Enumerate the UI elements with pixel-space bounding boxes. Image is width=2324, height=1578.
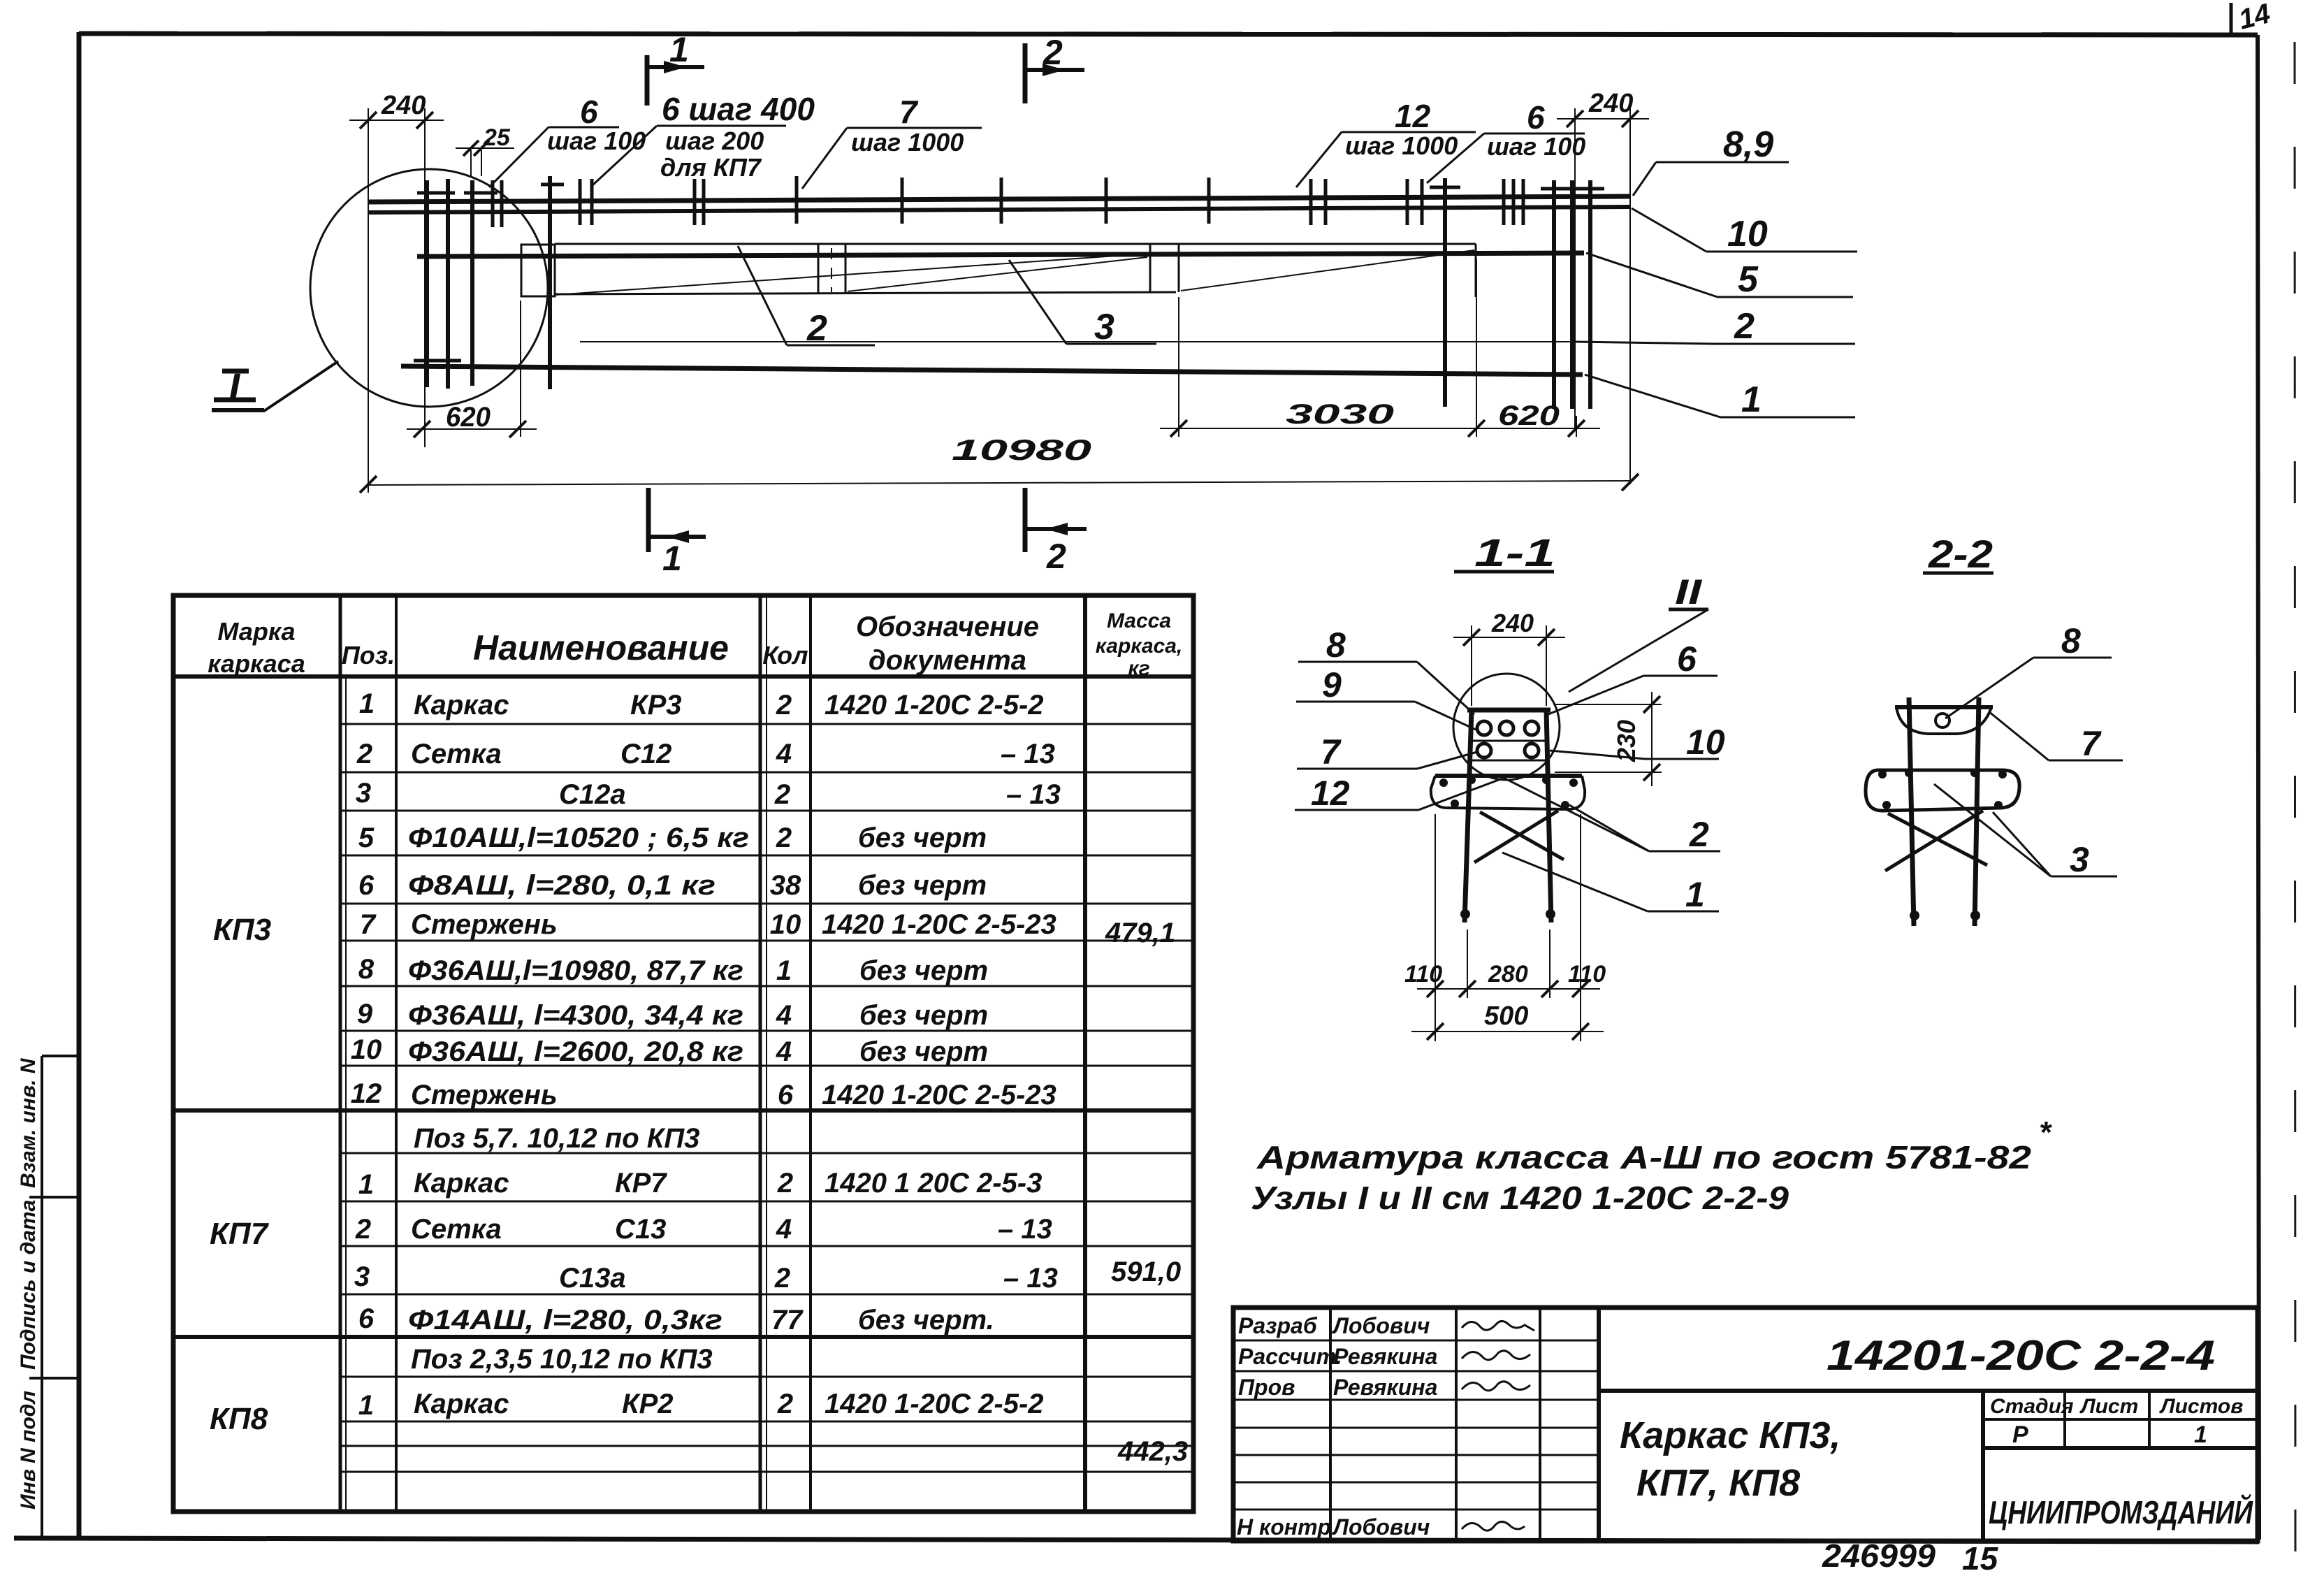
svg-text:12: 12 (1311, 774, 1350, 813)
svg-text:1: 1 (1685, 875, 1705, 914)
svg-text:9: 9 (357, 999, 373, 1029)
callout 2 mid-left (738, 246, 875, 345)
callout 8 (sec 2-2) (1945, 658, 2112, 718)
beam joint rib 2 (1150, 245, 1179, 292)
svg-text:Ф14АШ, l=280, 0,3кг: Ф14АШ, l=280, 0,3кг (408, 1305, 722, 1335)
leader and label I (212, 361, 338, 411)
beam outline top edge (555, 243, 1476, 245)
svg-text:6: 6 (1527, 99, 1545, 136)
dim 240 of section 1-1 (1453, 625, 1565, 706)
svg-text:Разраб: Разраб (1238, 1313, 1318, 1338)
svg-text:Взам. инв. N: Взам. инв. N (17, 1057, 40, 1188)
svg-text:1420 1-20С 2-5-23: 1420 1-20С 2-5-23 (822, 1080, 1056, 1110)
svg-text:8: 8 (1326, 625, 1346, 665)
svg-text:Ф8АШ, l=280, 0,1 кг: Ф8АШ, l=280, 0,1 кг (408, 870, 716, 901)
title block signature rows (1237, 1313, 1437, 1540)
svg-text:– 13: – 13 (998, 1214, 1052, 1245)
svg-text:шаг 1000: шаг 1000 (851, 128, 964, 157)
svg-text:240: 240 (1491, 609, 1534, 637)
beam outline right edge (1475, 244, 1477, 297)
dimension 3030 (1160, 259, 1495, 437)
svg-text:шаг 100: шаг 100 (1487, 132, 1585, 161)
svg-text:КП3: КП3 (213, 913, 271, 947)
svg-text:240: 240 (1588, 89, 1633, 118)
svg-text:7: 7 (2081, 724, 2102, 763)
svg-text:5: 5 (358, 823, 375, 853)
svg-text:Ревякина: Ревякина (1333, 1375, 1437, 1400)
label 6 шаг 400 шаг 200 для КП7 (593, 126, 786, 185)
callout 1 right (1585, 375, 1855, 417)
svg-text:280: 280 (1488, 961, 1528, 987)
callout 12 (sec 1-1) (1295, 779, 1502, 810)
svg-text:Ф36АШ, l=2600, 20,8 кг: Ф36АШ, l=2600, 20,8 кг (408, 1036, 743, 1067)
svg-text:Лист: Лист (2079, 1395, 2138, 1418)
svg-text:8,9: 8,9 (1723, 124, 1773, 165)
title block grid (1233, 1308, 2258, 1541)
stirrup pairs near right (1311, 179, 1523, 225)
svg-text:1420 1-20С 2-5-2: 1420 1-20С 2-5-2 (825, 1389, 1044, 1419)
section 2-2 top flange (1895, 707, 1993, 734)
vertical dim 230 (sec 1-1) (1555, 692, 1662, 786)
svg-text:10: 10 (351, 1034, 382, 1065)
svg-text:Каркас: Каркас (414, 690, 509, 721)
svg-text:Обозначение: Обозначение (856, 611, 1039, 642)
svg-text:Листов: Листов (2159, 1395, 2243, 1418)
dimension 10980 (360, 474, 1639, 493)
svg-text:КР3: КР3 (630, 690, 682, 721)
svg-text:246999: 246999 (1822, 1537, 1936, 1574)
label 7 шаг 1000 (802, 128, 982, 189)
svg-text:14201-20С 2-2-4: 14201-20С 2-2-4 (1826, 1332, 2215, 1379)
svg-text:Каркас: Каркас (414, 1168, 509, 1199)
svg-text:6: 6 (358, 1303, 375, 1334)
section 1-1 column legs (1465, 710, 1551, 922)
svg-text:110: 110 (1404, 961, 1442, 987)
svg-text:10: 10 (1727, 214, 1768, 254)
callout 3 mid (1009, 260, 1156, 344)
left end vertical bars cluster (427, 176, 550, 389)
mesh line bar 2 thin (580, 341, 1574, 342)
section 1-1 leg end dots (1460, 909, 1555, 919)
svg-text:2: 2 (774, 779, 790, 810)
svg-text:1-1: 1-1 (1474, 530, 1555, 574)
svg-text:12: 12 (351, 1078, 382, 1109)
svg-text:Наименование: Наименование (473, 628, 729, 667)
svg-text:– 13: – 13 (1001, 739, 1055, 769)
node II detail circle (1453, 674, 1560, 780)
right end vertical bars cluster (1445, 178, 1590, 409)
svg-text:2: 2 (777, 1168, 793, 1199)
short stirrup pairs near left (493, 179, 704, 227)
section mark 2 bottom (1025, 488, 1087, 552)
label 12 шаг 1000 (1296, 132, 1476, 187)
svg-text:3030: 3030 (1286, 399, 1394, 430)
svg-text:каркаса,: каркаса, (1096, 635, 1183, 658)
svg-text:7: 7 (1321, 732, 1342, 772)
callout 3 (sec 2-2) (1934, 784, 2117, 876)
svg-text:Арматура класса А-Ш п: Арматура класса А-Ш по гост 5781-82 (1256, 1139, 2032, 1175)
table rows: position numbers (351, 688, 382, 1421)
svg-text:7: 7 (360, 909, 377, 940)
svg-text:1: 1 (776, 955, 792, 986)
svg-text:Стержень: Стержень (411, 909, 558, 940)
svg-text:3: 3 (1094, 307, 1114, 347)
svg-text:7: 7 (899, 94, 919, 130)
svg-text:1: 1 (669, 30, 689, 69)
svg-text:Ф36АШ, l=4300, 34,4 кг: Ф36АШ, l=4300, 34,4 кг (408, 1000, 743, 1031)
section 1-1 top flange with bars (1467, 710, 1550, 760)
svg-text:3: 3 (354, 1261, 370, 1292)
svg-text:1: 1 (359, 688, 375, 719)
svg-text:2: 2 (1046, 537, 1066, 576)
svg-text:Стержень: Стержень (411, 1080, 558, 1110)
callout 1 (sec 1-1) (1502, 853, 1719, 911)
left cluster top hooks (417, 184, 564, 193)
svg-text:6 шаг 400: 6 шаг 400 (662, 91, 815, 127)
section 2-2 leg end dots (1910, 911, 1980, 920)
section 1-1 cross bracing (1474, 811, 1564, 862)
svg-text:4: 4 (776, 1214, 792, 1245)
dimension 620 left (407, 301, 537, 437)
svg-text:1: 1 (358, 1390, 374, 1421)
top chord bar 8 (upper line) (368, 196, 1629, 202)
svg-text:Поз 2,3,5 10,12 по КП3: Поз 2,3,5 10,12 по КП3 (411, 1344, 713, 1375)
section mark 1 top (647, 55, 704, 106)
callout 9 (sec 1-1) (1296, 702, 1476, 730)
svg-text:6: 6 (1677, 639, 1697, 679)
svg-text:Ревякина: Ревякина (1333, 1344, 1437, 1369)
beam outline: left support pad (521, 245, 555, 296)
svg-text:ЦНИИПРОМЗДАНИЙ: ЦНИИПРОМЗДАНИЙ (1989, 1494, 2253, 1530)
svg-text:230: 230 (1612, 720, 1641, 762)
svg-text:2: 2 (777, 1389, 793, 1419)
svg-text:шаг 200: шаг 200 (665, 126, 764, 155)
svg-text:2: 2 (1689, 815, 1709, 854)
left sidebar boxes (29, 1056, 79, 1540)
right cluster hooks (1430, 187, 1604, 189)
svg-text:479,1: 479,1 (1105, 918, 1175, 948)
svg-text:77: 77 (771, 1305, 804, 1335)
svg-text:1420 1 20С 2-5-3: 1420 1 20С 2-5-3 (825, 1168, 1042, 1199)
svg-text:– 13: – 13 (1006, 779, 1061, 810)
svg-text:1: 1 (1741, 379, 1762, 420)
svg-text:без черт.: без черт. (858, 1305, 994, 1335)
table grid (173, 595, 1193, 1512)
svg-text:1: 1 (662, 539, 682, 578)
section 2-2 bottom flange (1866, 770, 2019, 811)
section mark 1 bottom (648, 488, 706, 552)
mesh taper diagonal mid (848, 257, 1147, 291)
svg-text:Лобович: Лобович (1332, 1514, 1430, 1540)
svg-text:12: 12 (1395, 98, 1431, 134)
svg-text:КР7: КР7 (615, 1168, 667, 1199)
callout 7 (sec 2-2) (1989, 711, 2123, 760)
svg-text:6: 6 (358, 870, 375, 901)
single stirrups along chord (797, 176, 1209, 224)
svg-text:II: II (1675, 572, 1702, 611)
mesh taper diagonal left (555, 254, 1147, 295)
svg-text:без черт: без черт (858, 823, 987, 853)
svg-text:620: 620 (446, 402, 491, 433)
callout 8 (sec 1-1) (1298, 662, 1474, 714)
sec 1-1 bottom dimensions 110 280 110 (1417, 814, 1600, 1041)
svg-text:Лобович: Лобович (1332, 1313, 1430, 1338)
svg-text:3: 3 (2070, 840, 2089, 879)
svg-text:620: 620 (1498, 400, 1560, 431)
detail circle I (310, 169, 548, 407)
callout 5 (1586, 253, 1853, 297)
bar 5 thick line at beam top (417, 253, 1584, 256)
svg-text:КП8: КП8 (210, 1402, 268, 1436)
callout 6 (sec 1-1) (1548, 676, 1717, 714)
beam outline bottom edge (555, 292, 1176, 294)
svg-text:Масса: Масса (1107, 609, 1171, 632)
svg-text:8: 8 (358, 954, 375, 985)
svg-text:6: 6 (580, 94, 598, 130)
svg-text:Каркас КП3,: Каркас КП3, (1620, 1414, 1840, 1456)
page edge dashed line (2295, 42, 2295, 1558)
svg-text:для КП7: для КП7 (660, 153, 762, 182)
svg-text:2: 2 (355, 1214, 371, 1245)
svg-text:– 13: – 13 (1003, 1263, 1058, 1294)
svg-text:10: 10 (1686, 723, 1725, 762)
section 2-2 flange bar dots (1878, 769, 2007, 809)
svg-text:3: 3 (356, 778, 371, 809)
svg-text:1420 1-20С 2-5-2: 1420 1-20С 2-5-2 (825, 690, 1044, 721)
svg-text:Н контр: Н контр (1237, 1514, 1331, 1540)
svg-text:1: 1 (358, 1169, 374, 1200)
svg-text:С13: С13 (615, 1214, 666, 1245)
callout 2 right (1574, 342, 1855, 344)
label 6 шаг 100 left (489, 127, 619, 187)
callout 10 (sec 1-1) (1550, 751, 1719, 759)
callout 7 (sec 1-1) (1297, 752, 1477, 769)
table header texts (208, 609, 1182, 680)
svg-text:Инв N подл: Инв N подл (17, 1391, 40, 1510)
section 2-2 cross bracing (1885, 811, 1987, 871)
table rows: document designations (822, 690, 1061, 1419)
svg-text:кг: кг (1128, 657, 1149, 680)
bottom chord bar 1 (401, 366, 1583, 375)
svg-text:4: 4 (776, 1000, 792, 1031)
svg-text:Поз 5,7. 10,12 по КП3: Поз 5,7. 10,12 по КП3 (414, 1123, 699, 1154)
section 2-2 legs (1909, 697, 1979, 926)
svg-text:Ф36АШ,l=10980, 87,7 кг: Ф36АШ,l=10980, 87,7 кг (408, 955, 743, 986)
svg-text:документа: документа (869, 645, 1026, 676)
stage-sheet header (1990, 1395, 2243, 1418)
table rows: quantities (770, 690, 804, 1419)
svg-text:10980: 10980 (952, 433, 1091, 466)
svg-text:С12: С12 (620, 739, 671, 769)
svg-text:Подпись и дата: Подпись и дата (17, 1200, 40, 1370)
svg-text:Сетка: Сетка (411, 739, 502, 769)
svg-text:Марка: Марка (217, 617, 295, 646)
svg-text:15: 15 (1962, 1540, 1999, 1577)
svg-text:240: 240 (381, 91, 426, 120)
svg-text:1: 1 (2194, 1421, 2207, 1448)
dimension 620 right (1495, 416, 1600, 437)
svg-text:2-2: 2-2 (1928, 532, 1993, 576)
signatures squiggles (1462, 1321, 1534, 1530)
svg-text:без черт: без черт (859, 1036, 988, 1067)
svg-text:5: 5 (1738, 259, 1759, 300)
sec 1-1 dimension 500 (1411, 1023, 1604, 1040)
svg-text:4: 4 (776, 1036, 792, 1067)
svg-text:без черт: без черт (858, 870, 987, 901)
svg-text:6: 6 (778, 1080, 794, 1110)
dimension 240 left (349, 108, 444, 493)
svg-text:8: 8 (2061, 621, 2081, 660)
svg-text:шаг 1000: шаг 1000 (1345, 131, 1458, 160)
svg-text:591,0: 591,0 (1111, 1257, 1181, 1287)
callout 10 (1632, 208, 1857, 252)
svg-text:С12а: С12а (559, 779, 626, 810)
svg-text:Стадия: Стадия (1990, 1395, 2074, 1418)
table rows: names (408, 690, 749, 1419)
section mark 2 top (1025, 43, 1084, 103)
svg-text:38: 38 (770, 870, 801, 901)
section 1-1 bottom flange (1431, 776, 1585, 809)
section 1-1 flange bar dots (1439, 776, 1578, 809)
label 6 шаг 100 right (1427, 133, 1585, 183)
mesh taper diagonal right (1181, 250, 1474, 291)
svg-text:9: 9 (1322, 665, 1342, 704)
svg-text:Сетка: Сетка (411, 1214, 502, 1245)
svg-text:2: 2 (356, 739, 372, 769)
svg-text:2: 2 (776, 690, 792, 721)
svg-text:2: 2 (806, 308, 827, 349)
corner tick top right (2230, 3, 2233, 35)
svg-text:Кол: Кол (762, 641, 808, 669)
dimension 25 (456, 140, 514, 176)
svg-text:КР2: КР2 (622, 1389, 674, 1419)
svg-text:Узлы I и II см 1420 1-: Узлы I и II см 1420 1-20С 2-2-9 (1251, 1180, 1789, 1216)
svg-text:каркаса: каркаса (208, 649, 305, 678)
svg-text:442,3: 442,3 (1117, 1436, 1188, 1467)
svg-text:2: 2 (1734, 306, 1755, 347)
callout 2 (sec 1-1) (1502, 777, 1720, 851)
svg-text:2: 2 (1043, 33, 1063, 72)
svg-text:без черт: без черт (859, 1000, 988, 1031)
svg-text:КП7: КП7 (210, 1217, 270, 1251)
svg-text:1420 1-20С 2-5-23: 1420 1-20С 2-5-23 (822, 909, 1056, 940)
svg-text:2: 2 (774, 1263, 790, 1294)
left cluster bottom hooks (414, 359, 461, 363)
dimension 240 right (1557, 108, 1649, 484)
svg-text:2: 2 (776, 823, 792, 853)
svg-text:4: 4 (776, 739, 792, 769)
beam joint rib 1 (818, 245, 845, 294)
svg-text:25: 25 (483, 124, 511, 151)
svg-text:110: 110 (1568, 961, 1606, 987)
svg-text:Р: Р (2012, 1421, 2028, 1448)
svg-text:Поз.: Поз. (342, 641, 395, 669)
svg-text:КП7, КП8: КП7, КП8 (1636, 1462, 1800, 1504)
callout 8,9 (1633, 162, 1789, 196)
svg-text:10: 10 (770, 909, 801, 940)
svg-text:Рассчит.: Рассчит. (1238, 1344, 1342, 1369)
svg-text:*: * (2039, 1115, 2052, 1150)
svg-text:Пров: Пров (1238, 1375, 1295, 1400)
svg-text:Ф10АШ,l=10520 ; 6,5 кг: Ф10АШ,l=10520 ; 6,5 кг (408, 823, 749, 853)
top chord bar 10 (lower line) (368, 207, 1629, 212)
svg-text:Каркас: Каркас (414, 1389, 509, 1419)
svg-text:С13а: С13а (559, 1263, 626, 1294)
svg-text:без черт: без черт (859, 955, 988, 986)
svg-text:500: 500 (1484, 1001, 1528, 1031)
